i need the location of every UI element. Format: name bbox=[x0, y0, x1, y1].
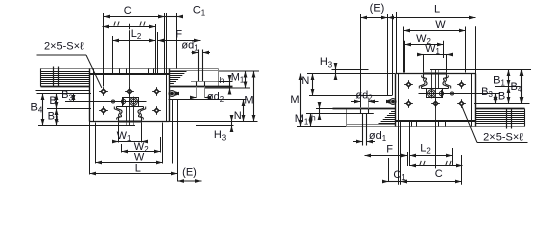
svg-text:B: B bbox=[498, 90, 505, 102]
svg-text:2×5-S×ℓ: 2×5-S×ℓ bbox=[44, 40, 84, 52]
svg-text:N: N bbox=[234, 110, 242, 122]
svg-text:B: B bbox=[49, 95, 56, 107]
svg-text:C: C bbox=[435, 168, 443, 180]
svg-text:(E): (E) bbox=[182, 166, 197, 178]
svg-text:W: W bbox=[435, 19, 446, 31]
svg-text:F: F bbox=[386, 143, 393, 155]
svg-text:N: N bbox=[301, 75, 309, 87]
svg-text:(E): (E) bbox=[370, 3, 385, 15]
svg-text:C: C bbox=[124, 5, 132, 17]
svg-text:h: h bbox=[311, 113, 316, 123]
svg-text:M: M bbox=[290, 94, 299, 106]
svg-text:L: L bbox=[135, 162, 141, 174]
svg-text:M: M bbox=[244, 94, 253, 106]
svg-text:L: L bbox=[434, 4, 440, 16]
svg-text:2×5-S×ℓ: 2×5-S×ℓ bbox=[483, 131, 523, 143]
svg-text:h: h bbox=[220, 75, 225, 85]
